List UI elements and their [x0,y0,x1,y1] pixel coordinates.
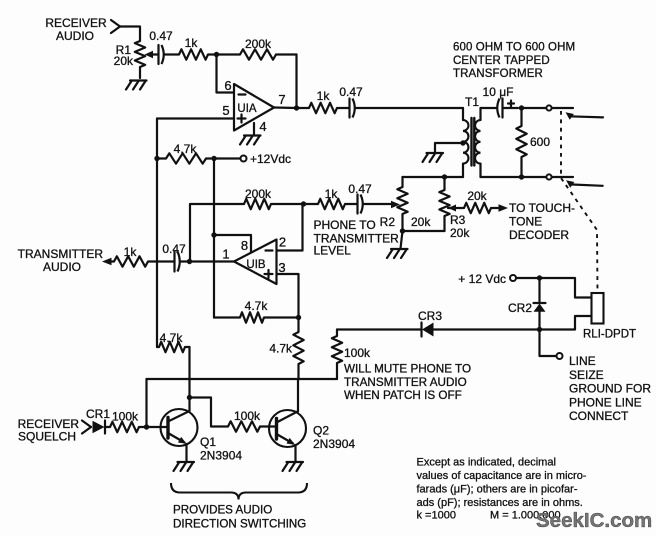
wire (U1A pin5) [157,117,234,119]
svg-text:SEIZE: SEIZE [569,368,604,382]
svg-text:PHONE TO: PHONE TO [314,218,376,232]
node [519,174,524,179]
resistor 4.7k (vertical) [269,318,303,380]
resistor 100k (squelch) [110,410,147,433]
svg-text:SQUELCH: SQUELCH [18,430,76,444]
svg-text:1k: 1k [325,187,339,201]
label TO TOUCH-TONE DECODER [509,201,575,242]
resistor 1k (transmitter audio) [114,245,148,267]
transistor Q2 2N3904 [269,410,355,451]
wire + terminal LINE SEIZE [540,330,563,360]
wire [165,53,180,55]
wire [337,328,422,330]
node [537,275,542,280]
resistor 4.7k (U1B + feedback) [214,299,299,323]
node [400,228,405,233]
svg-text:CR2: CR2 [508,301,532,315]
svg-text:2N3904: 2N3904 [313,437,355,451]
svg-text:k =1000: k =1000 [417,510,456,522]
wire [217,55,234,93]
node [211,156,216,161]
svg-text:Q1: Q1 [200,435,216,449]
svg-text:UIB: UIB [246,259,266,271]
note text [417,457,587,522]
svg-text:200k: 200k [245,37,272,51]
potentiometer R1 20k [114,41,158,78]
svg-text:PROVIDES AUDIO: PROVIDES AUDIO [173,504,272,517]
node [301,201,306,206]
svg-text:TRANSFORMER: TRANSFORMER [453,68,543,80]
wire [147,426,168,428]
svg-text:10 μF: 10 μF [483,85,514,99]
svg-text:1k: 1k [317,89,331,103]
svg-text:8: 8 [241,238,248,253]
terminal (line ring) [522,174,552,179]
svg-text:values of capacitance are in m: values of capacitance are in micro- [417,470,587,482]
wire (V+ rail down) [213,159,215,236]
wire [147,378,338,380]
node (center tap) [460,140,465,145]
node [537,327,542,332]
ground [174,462,195,471]
svg-text:600 OHM TO 600 OHM: 600 OHM TO 600 OHM [453,42,575,54]
svg-text:CONNECT: CONNECT [569,409,629,423]
node [187,395,192,400]
wire [433,328,540,330]
node A (U1A inverting input) [214,52,219,57]
potentiometer R2 20k [380,177,432,231]
label PHONE TO TRANSMITTER LEVEL [314,218,400,258]
wire (center tap) [435,143,463,153]
node [519,105,524,110]
capacitor C 0.47 (phone level) [345,182,394,214]
wire (transformer primary bottom rail) [403,176,464,178]
wire (to relay bottom) [540,316,592,330]
wire (bias rail down) [156,159,158,348]
resistor 1k (U1A output) [297,89,349,113]
wire [213,235,215,318]
relay RLI-DPDT [583,293,636,341]
svg-text:0.47: 0.47 [162,242,186,256]
svg-text:TO TOUCH-: TO TOUCH- [509,201,575,215]
svg-text:0.47: 0.47 [339,85,363,99]
ground [240,136,261,145]
wire [295,55,297,108]
svg-text:1: 1 [222,247,229,262]
svg-text:+12Vdc: +12Vdc [250,152,291,166]
node [296,315,301,320]
diode CR1 [86,407,110,434]
watermark SeekIC.com [536,509,652,532]
resistor 200k (U1A feedback) [217,37,297,60]
svg-text:20k: 20k [450,226,470,240]
resistor 4.7k (lower left) [157,331,190,352]
svg-text:ads (pF); resistances are in o: ads (pF); resistances are in ohms. [417,497,583,509]
op-amp U1B [222,235,286,285]
wire [356,107,464,109]
label transformer note [453,42,575,81]
svg-text:SeekIC.com: SeekIC.com [536,509,652,532]
svg-text:4.7k: 4.7k [245,299,269,313]
svg-text:WHEN PATCH IS OFF: WHEN PATCH IS OFF [344,389,462,402]
wire [156,119,158,159]
svg-text:100k: 100k [112,410,139,424]
svg-text:20k: 20k [411,215,431,229]
svg-text:CENTER TAPPED: CENTER TAPPED [453,55,550,67]
svg-text:T1: T1 [465,95,479,109]
svg-text:AUDIO: AUDIO [43,260,81,274]
svg-text:2: 2 [279,235,286,250]
wire (U1A output) [274,106,297,109]
svg-text:200k: 200k [245,187,272,201]
wire to R2 wiper [391,201,400,209]
output arrow TRANSMITTER AUDIO [18,247,114,274]
resistor 1k (receiver input) [179,36,208,60]
svg-text:TRANSMITTER AUDIO: TRANSMITTER AUDIO [344,376,467,389]
svg-text:1k: 1k [185,36,199,50]
capacitor C 0.47 (transmitter) [148,242,190,272]
node (U1A output) [294,105,299,110]
svg-text:TRANSMITTER: TRANSMITTER [18,247,104,261]
svg-text:4.7k: 4.7k [160,331,184,345]
ground [283,462,304,471]
transformer T1 [463,95,481,177]
label LINE SEIZE GROUND FOR PHONE LINE CONNECT [569,354,651,423]
dashed mechanical linkage [561,111,598,292]
svg-text:600: 600 [530,135,550,149]
resistor 4.7k (bias to +12V) [157,142,211,164]
input terminal RECEIVER AUDIO [45,16,120,43]
svg-text:+ 12 Vdc: + 12 Vdc [458,272,506,286]
node [442,174,447,179]
svg-text:farads (μF); others are in pic: farads (μF); others are in picofar- [417,484,578,496]
capacitor C 0.47 (U1A output) [339,85,363,118]
capacitor C 10uF [481,85,519,118]
wire (to relay top) [540,278,592,298]
wire [190,398,229,427]
phone line switch arm (top) [552,108,603,120]
terminal +12Vdc [241,152,292,166]
wire [120,27,140,42]
resistor 1k (phone level) [304,187,346,209]
wire (U1B output) [190,260,235,262]
wire [208,53,217,55]
svg-text:3: 3 [278,260,285,275]
phone line switch arm (bottom) [552,177,603,188]
svg-text:6: 6 [224,78,231,93]
wire (U1B pin2) [277,204,303,251]
resistor 20k (to decoder) [464,189,500,213]
wire (Q2 emitter) [294,445,296,462]
wire [403,230,445,232]
ground [423,153,444,162]
terminal + 12 Vdc [458,272,516,286]
svg-text:20k: 20k [114,54,134,68]
label WILL MUTE... [344,363,471,403]
svg-text:Q2: Q2 [313,424,329,438]
wire [481,176,522,178]
svg-text:1k: 1k [124,245,138,259]
svg-text:20k: 20k [467,189,487,203]
ground [387,231,408,258]
node [144,424,149,429]
svg-text:LEVEL: LEVEL [314,244,352,258]
svg-text:GROUND FOR: GROUND FOR [569,382,651,396]
wire (Q2 collector) [297,379,299,412]
op-amp U1A [222,78,285,135]
brace PROVIDES AUDIO DIRECTION SWITCHING [171,483,307,531]
diode CR2 [508,278,546,330]
svg-text:AUDIO: AUDIO [56,29,94,43]
svg-text:0.47: 0.47 [348,182,372,196]
svg-text:R3: R3 [450,213,466,227]
resistor 200k (U1B feedback) [190,187,304,261]
svg-text:7: 7 [278,92,285,107]
resistor 600 [516,108,550,177]
svg-text:RECEIVER: RECEIVER [45,16,107,30]
svg-text:LINE: LINE [569,354,596,368]
diode CR3 [418,309,442,337]
svg-text:100k: 100k [234,409,261,423]
wire [145,379,147,427]
svg-text:PHONE LINE: PHONE LINE [569,395,642,409]
svg-text:WILL MUTE PHONE TO: WILL MUTE PHONE TO [344,363,471,376]
svg-text:UIA: UIA [237,103,257,115]
wire [188,347,190,398]
svg-text:0.47: 0.47 [149,29,173,43]
arrow to decoder [499,204,509,212]
input terminal RECEIVER SQUELCH [18,417,91,444]
svg-text:5: 5 [222,103,229,118]
transistor Q1 2N3904 [161,409,243,463]
svg-text:4.7k: 4.7k [269,342,293,356]
svg-text:CR3: CR3 [418,309,442,323]
wire (Q1 collector) [188,398,190,412]
svg-text:R2: R2 [380,215,396,229]
resistor 100k (Q1-Q2) [228,409,276,432]
node [187,259,192,264]
svg-text:4.7k: 4.7k [174,142,198,156]
svg-text:2N3904: 2N3904 [200,449,242,463]
svg-text:100k: 100k [344,346,371,360]
wire [214,157,241,159]
wire (Q1 emitter) [185,444,187,462]
potentiometer R3 20k [439,177,470,240]
wire [517,277,540,279]
svg-text:RLI-DPDT: RLI-DPDT [583,329,636,341]
resistor 100k (mute) [332,330,371,380]
svg-text:DECODER: DECODER [509,228,569,242]
node [154,156,159,161]
wire (U1B pin3) [277,274,299,318]
svg-text:4: 4 [259,119,266,134]
svg-text:CR1: CR1 [86,407,110,421]
svg-text:DIRECTION SWITCHING: DIRECTION SWITCHING [173,518,306,531]
svg-text:TONE: TONE [509,215,542,229]
svg-text:Except as indicated, decimal: Except as indicated, decimal [417,457,556,469]
capacitor C 0.47 (receiver input) [149,29,173,64]
node [211,232,216,237]
terminal (line tip) [522,105,552,110]
ground [126,81,147,90]
wire (U1B pin8) [214,235,251,253]
